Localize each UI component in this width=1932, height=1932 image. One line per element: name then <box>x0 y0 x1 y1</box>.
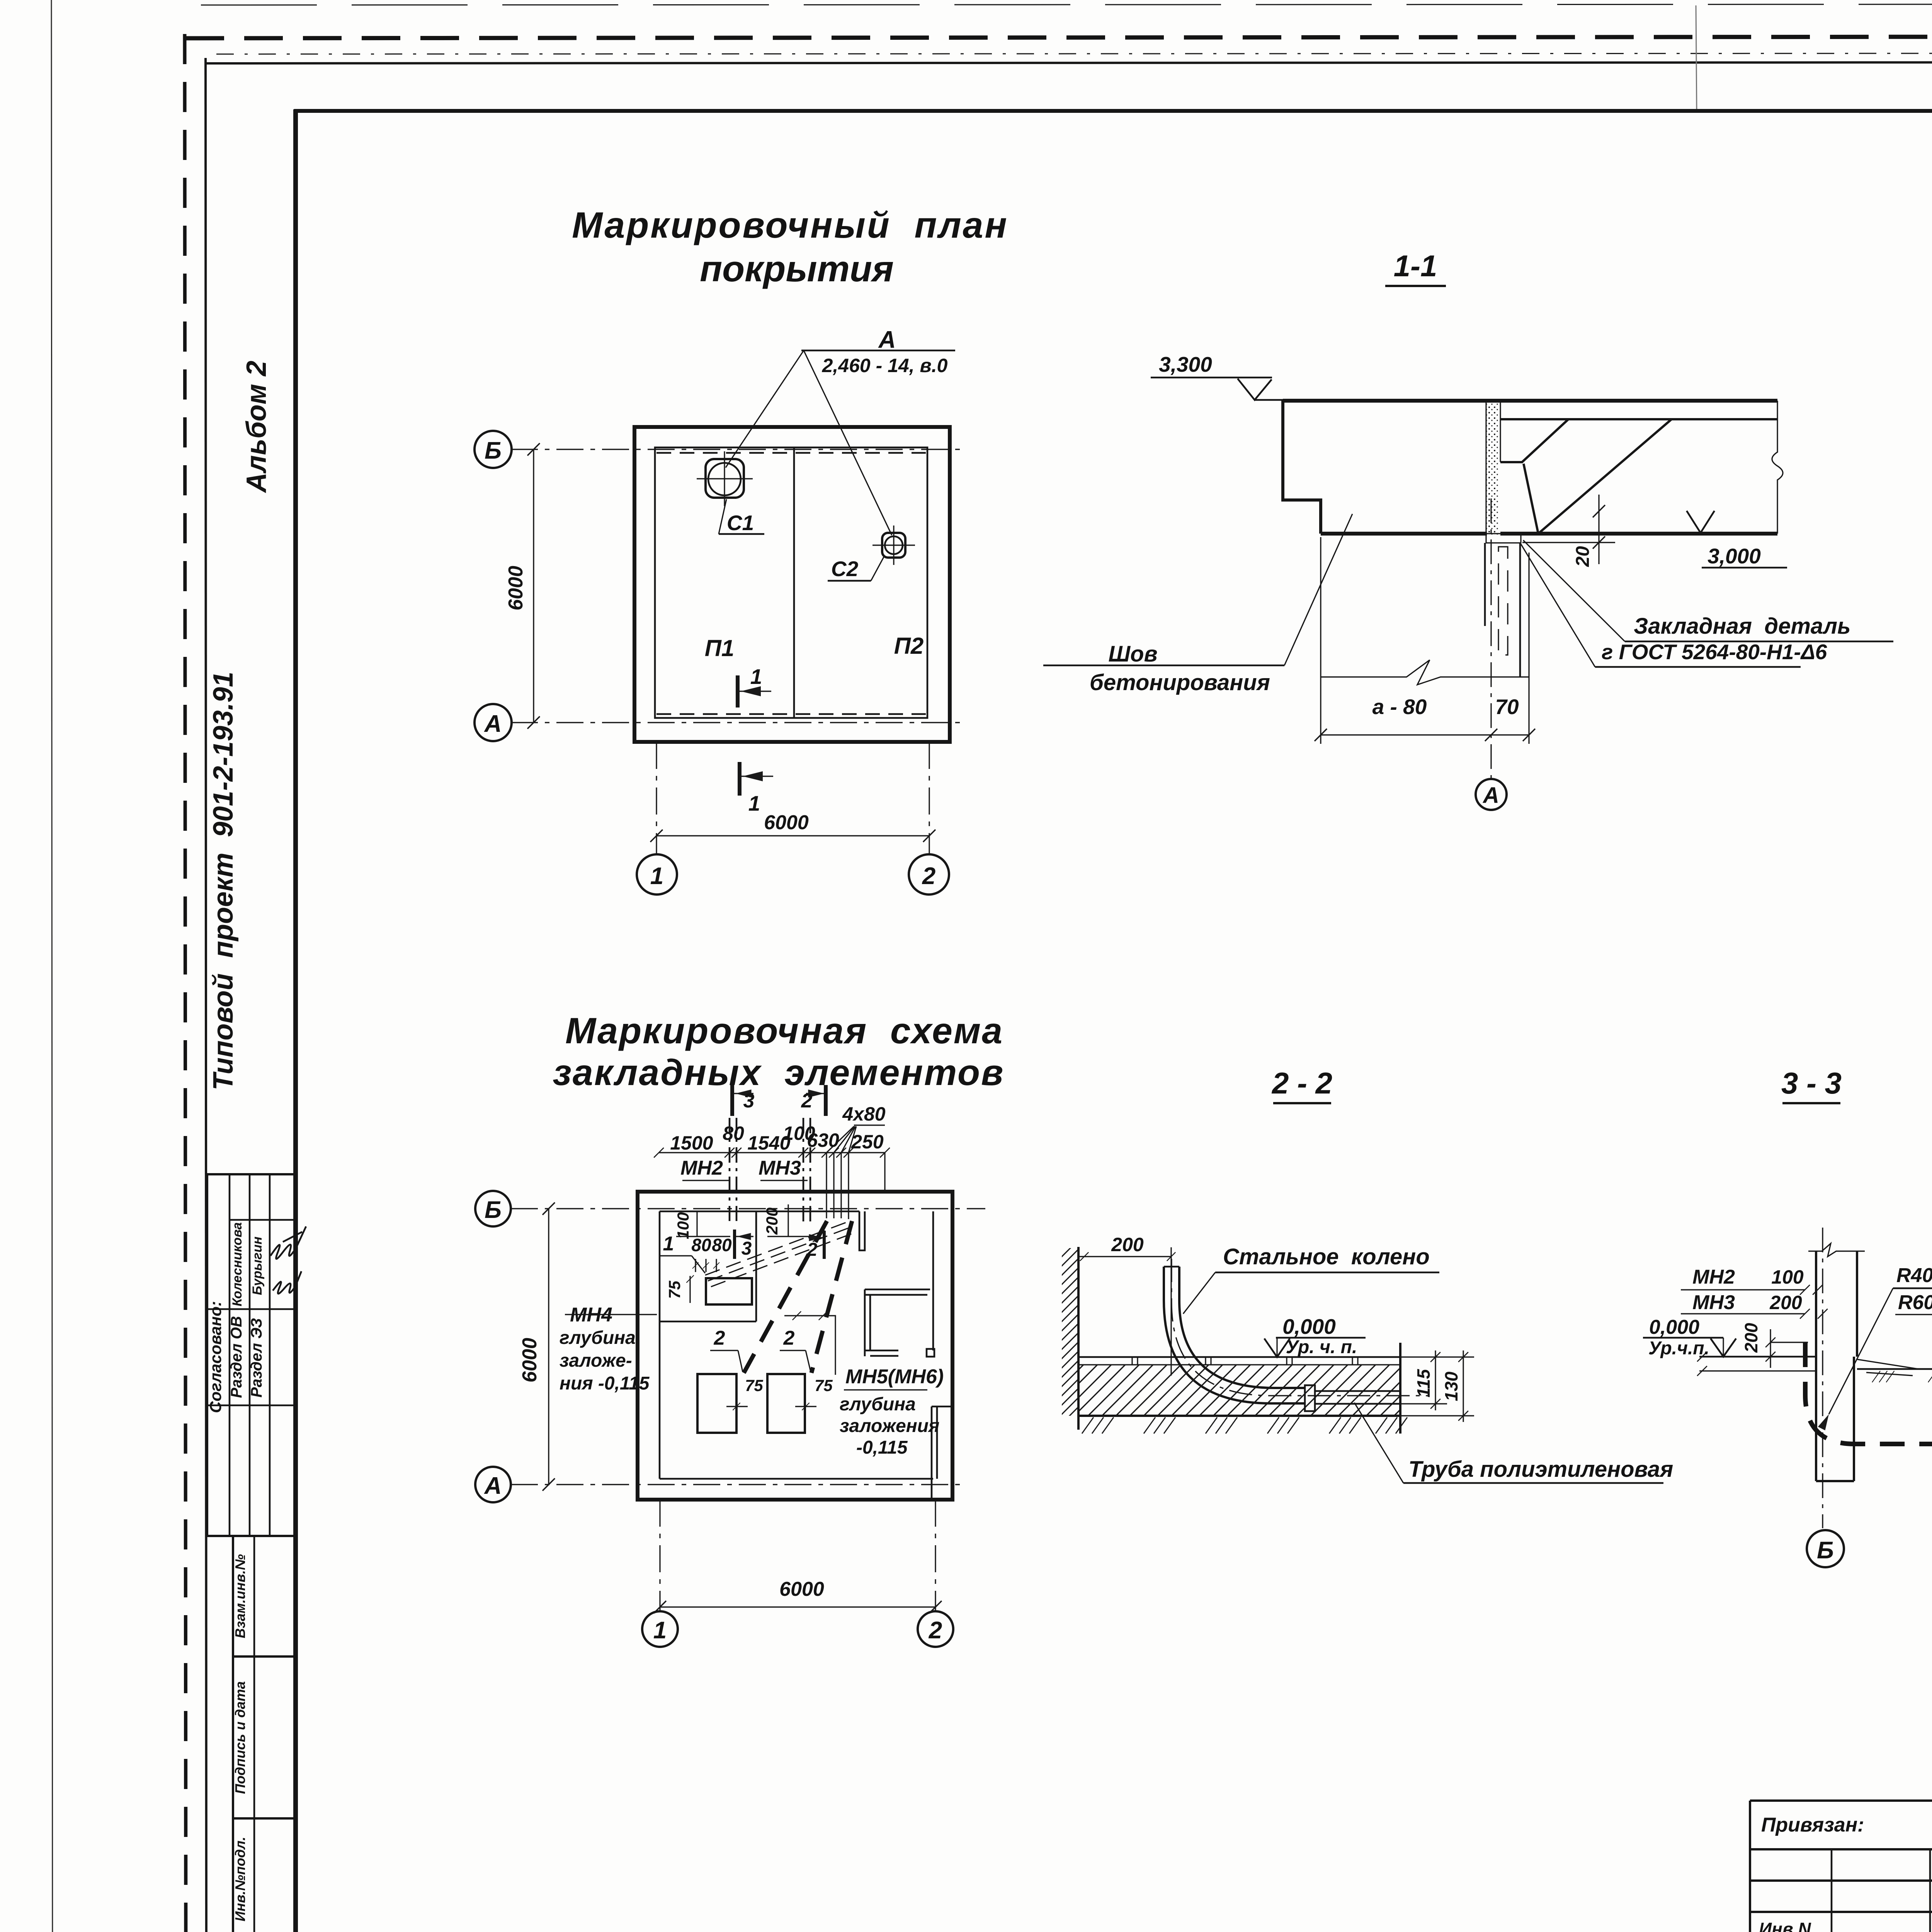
signature 2 <box>270 1226 306 1259</box>
right break edge <box>1772 401 1783 534</box>
svg-text:2: 2 <box>922 863 935 889</box>
inner left wall <box>659 1211 661 1479</box>
leader to C2 <box>804 350 892 535</box>
circle 2 <box>909 854 949 895</box>
svg-text:2: 2 <box>714 1327 725 1349</box>
podpis divider <box>253 1656 255 1818</box>
svg-text:250: 250 <box>851 1131 884 1153</box>
top dim line <box>659 1152 885 1153</box>
vzam inv box <box>233 1536 296 1656</box>
svg-text:а - 80: а - 80 <box>1372 695 1427 719</box>
svg-text:200: 200 <box>1769 1292 1802 1313</box>
niche nub <box>927 1349 934 1357</box>
svg-text:Бурыгин: Бурыгин <box>250 1236 265 1295</box>
circle 2 <box>918 1611 953 1647</box>
spacing ticks <box>696 1259 716 1272</box>
dim line with break <box>1321 660 1529 685</box>
pipe centreline <box>1172 1259 1430 1396</box>
svg-text:130: 130 <box>1441 1371 1461 1401</box>
drawing frame top <box>294 109 1932 113</box>
concrete bottom line <box>1078 1415 1400 1417</box>
wall right edge upper <box>1856 1251 1858 1357</box>
svg-text:1-1: 1-1 <box>1394 249 1437 283</box>
svg-text:0,000: 0,000 <box>1282 1315 1336 1338</box>
section flag 3 inner <box>733 1230 736 1259</box>
circle 1 <box>637 854 677 895</box>
top thin dash-dot border <box>216 53 1932 54</box>
pipe thick dashed <box>1805 1342 1932 1444</box>
circle Б <box>474 431 512 468</box>
svg-text:2: 2 <box>801 1090 813 1112</box>
circle А <box>475 1467 511 1502</box>
svg-text:3,300: 3,300 <box>1159 352 1212 376</box>
svg-text:С1: С1 <box>727 511 754 535</box>
svg-text:г ГОСТ 5264-80-Н1-Δ6: г ГОСТ 5264-80-Н1-Δ6 <box>1602 640 1827 664</box>
circle Б <box>475 1191 511 1226</box>
svg-text:Ур.ч.п.: Ур.ч.п. <box>1648 1338 1709 1359</box>
svg-text:3 - 3: 3 - 3 <box>1781 1066 1842 1100</box>
drawing frame left <box>293 109 298 1932</box>
svg-text:20: 20 <box>1573 546 1593 567</box>
floor second line <box>1078 1364 1400 1365</box>
svg-text:100: 100 <box>1771 1266 1804 1288</box>
svg-text:покрытия: покрытия <box>700 248 894 289</box>
plan inner wall <box>655 447 927 718</box>
axis А dashdot <box>511 1484 963 1485</box>
svg-text:А: А <box>484 1473 502 1499</box>
МН5 thick dashed run <box>744 1221 827 1373</box>
svg-text:П1: П1 <box>705 635 735 661</box>
wall hatch <box>1062 1248 1078 1416</box>
svg-text:Подпись и дата: Подпись и дата <box>232 1681 248 1794</box>
wall below right edge <box>1519 543 1521 677</box>
top heavy dashed border <box>185 36 1932 38</box>
svg-text:заложения: заложения <box>840 1416 939 1436</box>
svg-text:6000: 6000 <box>779 1578 824 1600</box>
plan outer wall <box>634 427 950 742</box>
inv divider <box>253 1818 255 1932</box>
grade slope line <box>1857 1359 1918 1376</box>
slab top line <box>1283 399 1777 403</box>
wall below left edge <box>1484 543 1486 626</box>
svg-text:-0,115: -0,115 <box>856 1437 908 1458</box>
interior room wall <box>660 1211 756 1321</box>
svg-text:2: 2 <box>783 1327 795 1349</box>
joint left edge <box>1485 401 1486 536</box>
inner bottom wall <box>660 1478 933 1480</box>
section cut edge <box>1399 1343 1401 1434</box>
soglasovano row line 3 <box>207 1405 297 1406</box>
circle Б ref <box>1807 1530 1844 1567</box>
svg-text:ния -0,115: ния -0,115 <box>560 1373 650 1394</box>
niche wall right <box>865 1289 930 1356</box>
axis 1 dashdot <box>659 1500 660 1611</box>
ground right line <box>1857 1368 1932 1370</box>
svg-text:4х80: 4х80 <box>842 1103 885 1125</box>
МН4 pipe bundle dashed <box>705 1220 852 1275</box>
svg-text:МН3: МН3 <box>759 1157 801 1179</box>
svg-text:Инв.№подл.: Инв.№подл. <box>232 1837 248 1921</box>
inner right wall lower <box>932 1406 937 1500</box>
inner right wall upper <box>932 1211 934 1350</box>
plan outer wall <box>638 1192 952 1500</box>
wall right edge lower <box>1853 1357 1855 1481</box>
svg-text:МН2: МН2 <box>1692 1266 1735 1288</box>
steel elbow pipe outer <box>1164 1267 1306 1403</box>
plan inner top wall <box>660 1211 859 1213</box>
привязан inner verticals <box>1832 1849 1932 1932</box>
joint stipple band <box>1486 402 1499 536</box>
svg-text:МН2: МН2 <box>680 1157 723 1179</box>
coupling <box>1305 1385 1315 1411</box>
axis 2 line <box>929 742 930 854</box>
svg-text:Ур. ч. п.: Ур. ч. п. <box>1286 1337 1357 1357</box>
wall left edge <box>1815 1251 1817 1481</box>
soglasovano col line 1 <box>229 1174 231 1536</box>
label труба полиэтиленовая <box>1354 1403 1403 1483</box>
svg-text:1: 1 <box>663 1233 674 1255</box>
section mark 1 lower <box>738 762 742 796</box>
svg-text:Инв.N: Инв.N <box>1759 1919 1811 1932</box>
МН5 label leader <box>784 1316 835 1375</box>
embed anchor dashed <box>1498 547 1508 655</box>
left slab bottom edge <box>1321 532 1487 536</box>
svg-text:6000: 6000 <box>505 566 527 611</box>
leader to C1 <box>726 350 804 468</box>
circle А <box>474 704 512 741</box>
svg-text:1: 1 <box>750 665 762 689</box>
axis 1 line <box>656 742 657 854</box>
svg-text:А: А <box>484 711 502 737</box>
equipment rect top <box>706 1278 752 1304</box>
svg-text:Привязан:: Привязан: <box>1761 1814 1864 1836</box>
top thin dashed sheet edge <box>201 4 1932 5</box>
4x80 pipes verticals <box>827 1153 885 1219</box>
svg-text:6000: 6000 <box>764 811 809 834</box>
svg-text:Типовой проект 901-2-193.91: Типовой проект 901-2-193.91 <box>208 672 239 1090</box>
wall bottom <box>1816 1480 1854 1482</box>
svg-text:R600 для МН3: R600 для МН3 <box>1898 1291 1932 1314</box>
svg-text:80: 80 <box>723 1122 744 1144</box>
floor top line <box>1078 1356 1400 1358</box>
dim 115 <box>1435 1350 1436 1410</box>
svg-text:0,000: 0,000 <box>1649 1316 1699 1338</box>
svg-text:заложе-: заложе- <box>560 1350 632 1371</box>
soglasovano col line 2 <box>249 1174 251 1536</box>
bottom dim line 6000 <box>656 835 929 836</box>
floor joint ticks <box>1132 1357 1358 1365</box>
pump rect 1 <box>697 1374 736 1433</box>
svg-text:Шов: Шов <box>1108 641 1157 667</box>
МН6 thick dashed run <box>811 1221 852 1373</box>
привязан box <box>1750 1801 1932 1932</box>
dim ext line left <box>1320 537 1321 744</box>
pump rect 2 <box>767 1374 805 1433</box>
top centre crease <box>1696 5 1697 111</box>
top solid copy edge <box>206 62 1932 63</box>
dim ext line right <box>1528 553 1529 744</box>
left slab block outline <box>1283 401 1321 534</box>
МН2 embed pipes <box>729 1118 731 1221</box>
svg-text:1: 1 <box>748 791 760 815</box>
svg-text:Труба полиэтиленовая: Труба полиэтиленовая <box>1408 1457 1673 1482</box>
circle А ref <box>1476 779 1507 810</box>
concrete layer hatch <box>1078 1365 1400 1416</box>
dashed slab edge top <box>656 452 926 454</box>
soglasovano row line 1 <box>230 1219 297 1221</box>
svg-text:Б: Б <box>1817 1537 1834 1564</box>
callout underline <box>801 350 955 352</box>
wall face line <box>1077 1247 1080 1430</box>
vert dim line 6000 <box>533 449 534 723</box>
svg-text:Раздел ЭЗ: Раздел ЭЗ <box>248 1318 265 1398</box>
embed plate <box>1486 534 1521 543</box>
soglasovano table box <box>207 1174 297 1536</box>
podpis box <box>233 1656 296 1818</box>
floor left double line <box>1699 1356 1816 1358</box>
svg-text:80: 80 <box>712 1235 732 1255</box>
4x80 fan leaders <box>827 1126 856 1153</box>
svg-text:Маркировочный план: Маркировочный план <box>572 205 1009 246</box>
svg-text:С2: С2 <box>831 557 859 581</box>
svg-text:1: 1 <box>650 863 663 889</box>
leader to bend <box>1829 1288 1893 1414</box>
svg-text:75: 75 <box>745 1376 763 1395</box>
svg-text:А: А <box>878 327 896 353</box>
right slab bottom line <box>1500 532 1777 536</box>
svg-text:2,460 - 14, в.0: 2,460 - 14, в.0 <box>822 355 948 376</box>
svg-text:200: 200 <box>1111 1234 1144 1255</box>
pipe top opening <box>1164 1266 1179 1268</box>
svg-text:3,000: 3,000 <box>1708 544 1761 568</box>
elevation 3,000 <box>1687 511 1714 533</box>
stakan C1 <box>706 459 744 498</box>
svg-text:200: 200 <box>763 1207 781 1235</box>
svg-text:Б: Б <box>485 437 502 464</box>
dim line 2 <box>1321 734 1529 735</box>
svg-text:3: 3 <box>742 1238 752 1259</box>
svg-text:бетонирования: бетонирования <box>1090 670 1270 695</box>
svg-text:глубина: глубина <box>560 1328 636 1348</box>
vert dim 6000 <box>548 1209 549 1485</box>
section flag 2 inner <box>823 1231 826 1259</box>
svg-text:А: А <box>1482 783 1499 808</box>
svg-text:115: 115 <box>1413 1369 1434 1398</box>
right slab top flange line <box>1500 418 1777 420</box>
vzam divider <box>253 1536 255 1656</box>
svg-text:70: 70 <box>1495 695 1519 719</box>
svg-text:80: 80 <box>691 1235 711 1255</box>
left solid copy edge <box>206 58 206 1932</box>
soil hatch right <box>1872 1371 1894 1382</box>
PE pipe lines <box>1315 1390 1400 1392</box>
svg-text:6000: 6000 <box>519 1338 541 1383</box>
svg-text:2 - 2: 2 - 2 <box>1271 1066 1332 1100</box>
svg-text:Согласовано:: Согласовано: <box>206 1301 224 1413</box>
svg-text:200: 200 <box>1741 1323 1761 1353</box>
svg-text:Колесникова: Колесникова <box>230 1222 245 1306</box>
svg-text:R400 для МН2: R400 для МН2 <box>1896 1264 1932 1287</box>
stakan C2 <box>882 533 905 558</box>
section flag 2 top <box>824 1085 828 1116</box>
soglasovano col line 3 <box>269 1174 271 1536</box>
axis Б dashdot <box>511 1208 985 1209</box>
axis Б line <box>511 449 963 450</box>
left heavy dashed border <box>185 34 186 1932</box>
inv box <box>233 1818 296 1932</box>
svg-text:3: 3 <box>743 1090 755 1112</box>
svg-text:П2: П2 <box>894 633 924 659</box>
svg-text:глубина: глубина <box>840 1394 916 1415</box>
joint centre line <box>1490 498 1492 779</box>
svg-text:Закладная деталь: Закладная деталь <box>1634 614 1850 639</box>
svg-text:Альбом 2: Альбом 2 <box>241 361 272 493</box>
bottom dim 6000 <box>660 1606 935 1607</box>
steel elbow pipe inner <box>1179 1267 1306 1388</box>
svg-text:1: 1 <box>653 1617 667 1644</box>
svg-text:1500: 1500 <box>670 1132 713 1154</box>
wall top break <box>1808 1243 1865 1257</box>
svg-text:Б: Б <box>485 1197 502 1223</box>
svg-text:Маркировочная схема: Маркировочная схема <box>565 1010 1003 1051</box>
dim 130 <box>1463 1350 1464 1422</box>
joint right edge <box>1500 401 1501 462</box>
axis А line <box>511 722 963 723</box>
slab joint line <box>793 447 795 718</box>
circle 1 <box>642 1611 678 1647</box>
svg-text:Стальное колено: Стальное колено <box>1223 1244 1430 1269</box>
svg-text:МН5(МН6): МН5(МН6) <box>845 1366 944 1388</box>
svg-text:630: 630 <box>807 1129 839 1151</box>
svg-text:МН3: МН3 <box>1692 1291 1735 1314</box>
soglasovano row line 2 <box>207 1308 297 1310</box>
svg-text:Раздел ОВ: Раздел ОВ <box>228 1316 245 1398</box>
section flag 3 top <box>730 1085 734 1116</box>
svg-text:100: 100 <box>674 1212 692 1239</box>
right slab rib outline <box>1500 419 1568 462</box>
dim ext lines right <box>1400 1357 1474 1416</box>
axis 2 dashdot <box>935 1500 936 1611</box>
scan page edge line <box>51 0 53 1932</box>
svg-text:75: 75 <box>815 1376 833 1395</box>
signature 1 <box>273 1271 301 1294</box>
svg-text:Взам.инв.№: Взам.инв.№ <box>232 1554 248 1638</box>
centre dashdot line <box>1822 1228 1823 1528</box>
svg-text:2: 2 <box>929 1617 942 1644</box>
svg-text:закладных элементов: закладных элементов <box>553 1052 1005 1093</box>
soil hatch clusters <box>1082 1417 1114 1434</box>
section mark 1 upper <box>736 675 740 707</box>
dim 20 rotated <box>1593 505 1605 517</box>
МН3 embed pipes <box>803 1118 804 1223</box>
dashed slab edge bottom <box>656 713 926 715</box>
svg-text:75: 75 <box>665 1281 684 1299</box>
top wall stub <box>859 1211 865 1250</box>
